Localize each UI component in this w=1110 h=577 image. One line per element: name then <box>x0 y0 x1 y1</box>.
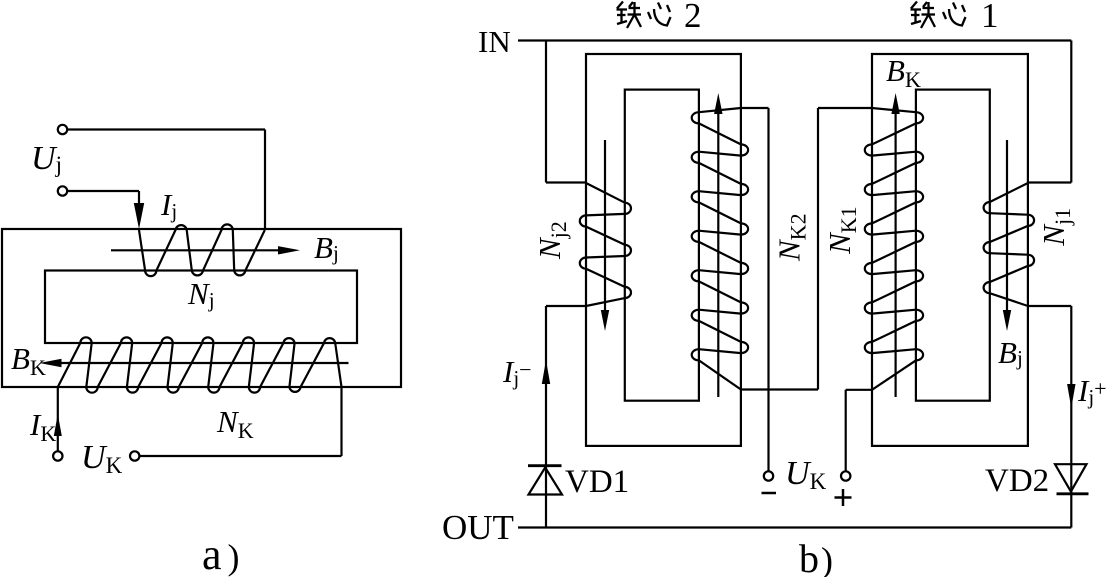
svg-text:2: 2 <box>684 0 702 35</box>
svg-text:VD2: VD2 <box>985 463 1049 499</box>
svg-text:IN: IN <box>478 24 511 59</box>
svg-text:b): b) <box>799 536 833 577</box>
svg-text:VD1: VD1 <box>565 464 629 500</box>
svg-text:OUT: OUT <box>442 508 514 547</box>
svg-text:a): a) <box>202 530 240 577</box>
svg-text:1: 1 <box>981 0 999 35</box>
